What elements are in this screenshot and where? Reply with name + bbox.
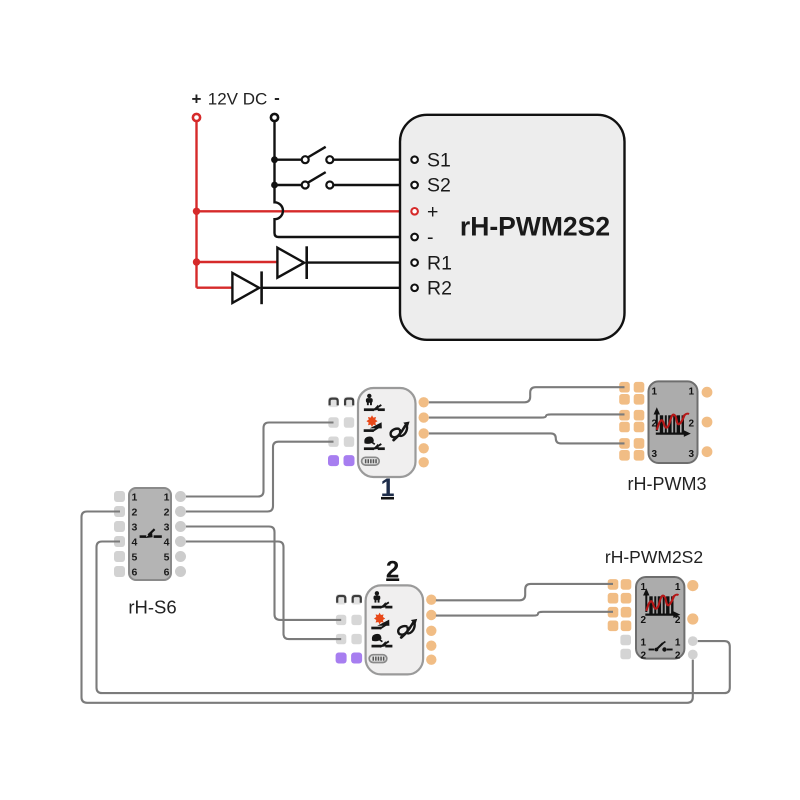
module rH-PWM3 <box>619 381 712 463</box>
wire module1 out3 to PWM3 pad5 <box>429 433 625 443</box>
wire S6 pin3 to module 2 input a <box>186 527 341 620</box>
svg-text:rH-PWM2S2: rH-PWM2S2 <box>605 547 703 567</box>
module 1 input pads row 3 <box>328 437 338 447</box>
wire black minus bus with hop over red wire <box>275 121 411 237</box>
wire S6 pin1 to module 1 input a <box>186 423 334 497</box>
terminal +12V (red) <box>193 114 200 121</box>
pin R2 <box>411 278 452 300</box>
icon switch contact 1 <box>364 405 385 411</box>
icon sensor 3 with switch <box>364 437 374 444</box>
wire red +12V vertical bus <box>195 121 197 287</box>
svg-text:2: 2 <box>164 507 170 519</box>
module rH-PWM2S2 (bottom right) <box>608 577 699 662</box>
svg-text:12V DC: 12V DC <box>208 90 268 109</box>
svg-text:rH-PWM3: rH-PWM3 <box>628 474 707 494</box>
switch icon inside rH-S6 <box>140 529 162 538</box>
label +12V DC supply <box>192 89 280 109</box>
diode D1 <box>277 246 411 279</box>
svg-text:3: 3 <box>688 449 694 460</box>
svg-text:1: 1 <box>675 637 681 648</box>
switch SW1 <box>275 147 412 163</box>
svg-text:3: 3 <box>164 522 170 534</box>
svg-text:+: + <box>192 90 202 109</box>
svg-text:R2: R2 <box>427 278 452 300</box>
icon wedge sensor 2 <box>370 422 382 428</box>
svg-text:6: 6 <box>132 567 138 579</box>
svg-text:R1: R1 <box>427 252 452 274</box>
svg-text:rH-PWM2S2: rH-PWM2S2 <box>460 212 610 242</box>
switch SW2 <box>275 172 412 188</box>
icon battery <box>362 457 380 465</box>
svg-text:1: 1 <box>641 637 647 648</box>
node black junction S1 <box>271 156 278 163</box>
svg-text:2: 2 <box>688 419 694 430</box>
svg-text:1: 1 <box>675 582 681 593</box>
module 1 input pads row 1 (jumper) <box>328 397 338 407</box>
pin S2 <box>411 175 451 197</box>
svg-text:1: 1 <box>164 492 170 504</box>
module 2 (sensor module) <box>336 585 437 674</box>
node red junction at + line <box>193 208 200 215</box>
wire S6 pin2 to module 1 input b <box>186 442 334 512</box>
svg-text:rH-S6: rH-S6 <box>128 597 176 618</box>
svg-text:+: + <box>427 201 438 223</box>
svg-text:1: 1 <box>688 387 694 398</box>
rH logo inside rH-PWM3 <box>654 407 691 437</box>
wire red to diode D2 <box>197 287 233 289</box>
svg-text:-: - <box>427 227 434 249</box>
wire S6 left pin4 to PWM2S2 relay pin1 (inner loop) <box>97 542 730 694</box>
svg-text:5: 5 <box>132 552 138 564</box>
svg-text:-: - <box>274 89 280 108</box>
wire module2 out1 to PWM2S2 pad1 <box>436 584 613 600</box>
wire S6 pin4 to module 2 input b <box>186 542 341 640</box>
label 2 <box>386 557 399 584</box>
module 1 input pads row 2 <box>328 417 338 427</box>
icon flexible output squiggle <box>394 437 398 440</box>
icon person sensor <box>366 394 373 406</box>
module 1 (sensor module) <box>328 388 429 477</box>
icon LED (red) <box>366 415 377 427</box>
terminal 0V (black) <box>271 114 278 121</box>
svg-text:3: 3 <box>132 522 138 534</box>
pin + <box>411 201 438 223</box>
relay switch icon inside rH-PWM2S2 <box>649 642 673 652</box>
wire red to + pin <box>197 210 411 212</box>
svg-text:2: 2 <box>641 615 647 626</box>
svg-text:1: 1 <box>132 492 138 504</box>
svg-text:5: 5 <box>164 552 170 564</box>
wire module1 out2 to PWM3 pad3 <box>429 414 625 417</box>
module 1 output pads (right, orange) <box>419 397 429 407</box>
node black junction S2 <box>271 182 278 189</box>
node red junction at R1 line <box>193 258 200 265</box>
wire red to diode D1 <box>197 261 278 263</box>
pin S1 <box>411 149 451 171</box>
controller rH-PWM2S2 (top schematic box) <box>400 115 625 340</box>
svg-text:2: 2 <box>641 651 647 662</box>
svg-text:2: 2 <box>132 507 138 519</box>
label 1 <box>381 474 395 502</box>
module 1 purple pads row 4 <box>328 455 339 466</box>
pin R1 <box>411 252 452 274</box>
svg-text:6: 6 <box>164 567 170 579</box>
rH logo inside rH-PWM2S2 <box>643 588 680 618</box>
svg-text:3: 3 <box>652 449 658 460</box>
wire module2 out2 to PWM2S2 pad3 <box>436 612 613 616</box>
wire module1 out1 to PWM3 pad1 <box>429 387 625 402</box>
module 1 body <box>358 388 416 477</box>
module rH-S6 body <box>114 488 171 580</box>
svg-text:4: 4 <box>132 537 138 549</box>
svg-text:4: 4 <box>164 537 170 549</box>
svg-text:1: 1 <box>652 387 658 398</box>
wire S6 left pin2 to PWM2S2 relay pin2 (outer loop) <box>82 512 693 703</box>
diode D2 <box>232 271 411 304</box>
S6 right pin circles <box>175 491 186 577</box>
svg-text:2: 2 <box>675 651 681 662</box>
svg-text:S1: S1 <box>427 149 451 171</box>
svg-text:S2: S2 <box>427 175 451 197</box>
pin - <box>411 227 433 249</box>
